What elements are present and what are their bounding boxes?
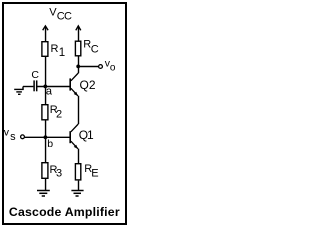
wire ground to capacitor C xyxy=(23,86,33,88)
border frame xyxy=(3,3,126,224)
svg-text:C: C xyxy=(91,43,99,55)
wire RE to ground xyxy=(78,181,80,191)
svg-text:Q2: Q2 xyxy=(80,78,96,92)
wire R3 to ground xyxy=(45,179,47,191)
resistor RE xyxy=(75,164,80,180)
wire R1 to node a to R2 xyxy=(45,57,47,105)
output terminal vo xyxy=(99,65,103,69)
label vs xyxy=(4,127,16,143)
label R3 xyxy=(50,164,63,180)
svg-text:a: a xyxy=(46,86,53,98)
svg-text:1: 1 xyxy=(59,47,65,59)
ground at capacitor xyxy=(14,87,24,95)
net label VCC xyxy=(49,7,72,23)
label vo xyxy=(105,58,116,74)
wire capacitor to node a to Q2 base xyxy=(37,86,70,88)
label R1 xyxy=(51,43,66,59)
node a junction dot xyxy=(43,85,47,89)
label R2 xyxy=(50,104,62,120)
ground under R3 xyxy=(37,191,50,197)
wire arrow from RC to VCC xyxy=(76,26,81,41)
resistor R3 xyxy=(42,163,48,179)
input terminal vs xyxy=(21,135,25,139)
svg-text:CC: CC xyxy=(57,11,72,23)
svg-text:C: C xyxy=(31,69,39,81)
svg-text:E: E xyxy=(91,168,98,180)
svg-text:3: 3 xyxy=(56,168,62,180)
label RE xyxy=(84,163,98,180)
svg-text:R: R xyxy=(51,43,59,55)
wire R2 to node b to R3 xyxy=(45,120,47,162)
svg-text:Cascode Amplifier: Cascode Amplifier xyxy=(9,205,120,219)
ground under RE xyxy=(71,191,83,197)
transistor Q1 xyxy=(69,124,78,149)
svg-text:Q1: Q1 xyxy=(79,128,94,142)
resistor R1 xyxy=(42,42,48,57)
resistor RC xyxy=(75,41,80,56)
resistor R2 xyxy=(42,105,48,120)
wire arrow from R1 to VCC xyxy=(43,26,48,41)
wire Q2 emitter to Q1 collector xyxy=(78,96,80,124)
wire RC to output node xyxy=(78,56,80,73)
svg-text:v: v xyxy=(4,127,10,139)
capacitor C xyxy=(34,80,37,91)
wire vs to node b to Q1 base xyxy=(25,136,70,138)
node b junction dot xyxy=(44,135,48,139)
wire output node to vo terminal xyxy=(78,66,98,68)
svg-text:b: b xyxy=(47,138,53,150)
svg-text:o: o xyxy=(110,62,116,73)
svg-text:s: s xyxy=(10,131,16,143)
label RC xyxy=(83,39,99,56)
svg-text:2: 2 xyxy=(56,109,62,121)
output node junction dot xyxy=(76,65,80,69)
wire Q1 emitter to RE xyxy=(78,149,80,164)
transistor Q2 xyxy=(69,73,78,96)
